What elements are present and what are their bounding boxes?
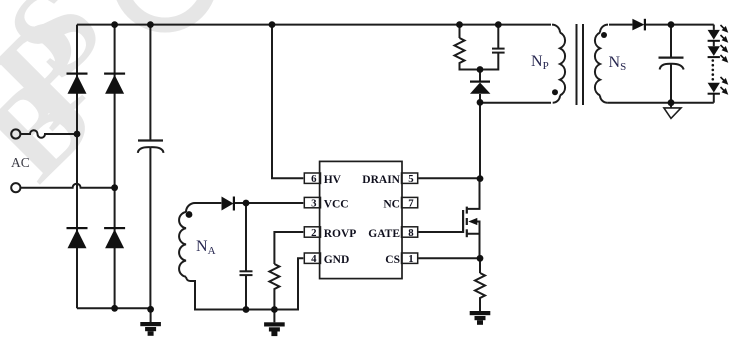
svg-text:HV: HV — [324, 174, 342, 186]
svg-text:2: 2 — [311, 227, 316, 239]
svg-text:VCC: VCC — [324, 198, 349, 210]
svg-text:3: 3 — [311, 198, 317, 210]
svg-text:8: 8 — [408, 227, 414, 239]
svg-text:CS: CS — [385, 254, 400, 266]
svg-text:NC: NC — [383, 198, 400, 210]
svg-text:7: 7 — [408, 198, 414, 210]
svg-text:5: 5 — [408, 173, 413, 185]
svg-text:GND: GND — [324, 254, 350, 266]
svg-text:DRAIN: DRAIN — [362, 174, 400, 186]
svg-text:AC: AC — [11, 155, 30, 170]
svg-text:1: 1 — [408, 253, 413, 265]
svg-text:ROVP: ROVP — [324, 228, 357, 240]
svg-text:GATE: GATE — [368, 228, 400, 240]
svg-text:4: 4 — [311, 253, 317, 265]
svg-text:6: 6 — [311, 173, 317, 185]
